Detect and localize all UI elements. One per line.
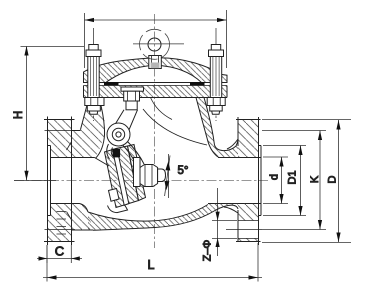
hinge pivot <box>107 123 130 146</box>
disc retaining black square <box>113 149 121 158</box>
5 degree indicator <box>168 154 170 198</box>
svg-text:D: D <box>327 175 339 183</box>
dimension D <box>262 120 351 243</box>
svg-text:5°: 5° <box>178 165 189 177</box>
svg-text:L: L <box>148 258 155 272</box>
left stud <box>85 45 104 115</box>
right flange hatch <box>238 120 258 157</box>
disc washer <box>134 158 141 187</box>
disc nut <box>140 165 158 187</box>
left flange outline <box>44 119 75 121</box>
disc lower washer plate <box>109 189 120 202</box>
bonnet hatch <box>84 58 228 83</box>
circle cross lines <box>133 43 184 45</box>
hinge bracket arms <box>114 110 125 127</box>
right flange bolt hole centerline <box>226 229 262 231</box>
bonnet width dimension line (top) <box>85 10 227 68</box>
svg-text:C: C <box>55 244 64 259</box>
dimension K <box>262 131 326 230</box>
flange fillets <box>227 139 238 149</box>
vertical centerline <box>154 14 156 248</box>
inlet neck hatch <box>71 98 104 158</box>
dimension C <box>37 245 82 263</box>
svg-text:K: K <box>309 175 321 183</box>
eyebolt boss <box>149 56 162 69</box>
bonnet inner arc <box>105 65 202 83</box>
dimension L <box>43 243 262 282</box>
right valley <box>215 140 239 151</box>
right stud <box>207 45 225 115</box>
svg-text:Z–Φ: Z–Φ <box>202 239 214 261</box>
disc plates <box>105 149 128 208</box>
disc plate gap strip <box>113 149 129 206</box>
horizontal pipe centerline <box>14 180 268 182</box>
outlet neck bottom hatch <box>210 204 238 211</box>
left stud hex nut <box>85 98 104 106</box>
bowl interior far-wall curves <box>143 109 207 145</box>
outlet bore lines <box>218 157 261 159</box>
hinge bracket nut <box>121 87 144 110</box>
dimension H <box>21 47 85 181</box>
swing arm tail <box>107 144 113 159</box>
centerline solid left segment <box>14 180 56 182</box>
svg-text:D1: D1 <box>287 170 299 184</box>
left flange bolt hole thread lines <box>57 212 67 235</box>
inlet neck lines <box>71 130 80 132</box>
svg-text:H: H <box>13 111 25 119</box>
left flange hatch <box>47 120 71 157</box>
seat entry chamfer <box>95 158 110 167</box>
svg-text:d: d <box>269 174 281 180</box>
bowl inner surface <box>88 205 208 222</box>
body bowl bottom hatch <box>88 204 215 231</box>
right flange bolt hole channel <box>238 221 258 239</box>
gasket right <box>190 82 205 85</box>
eyebolt circle outer (broken) <box>140 29 170 59</box>
right flange outline <box>236 119 261 121</box>
body left wall <box>81 98 90 130</box>
inlet bore lines <box>51 157 95 159</box>
body rim (bonnet flange of body) hatch <box>84 86 228 98</box>
disc bottom cap <box>108 204 128 212</box>
left flange bolt circle lines <box>45 131 76 230</box>
bowl outer surface <box>93 205 238 230</box>
body right wall hatch <box>196 98 238 158</box>
gasket left <box>104 82 119 85</box>
disc stem tip <box>158 169 166 182</box>
body right wall lines <box>196 98 218 158</box>
bolt hole dimension Z-Phi <box>212 188 237 256</box>
dimension D1 <box>263 146 306 216</box>
swing arm <box>128 142 145 165</box>
dimension d <box>263 157 288 204</box>
eyebolt circle inner <box>148 38 161 51</box>
right stud hex nut <box>207 98 225 106</box>
bonnet outline <box>84 58 228 83</box>
